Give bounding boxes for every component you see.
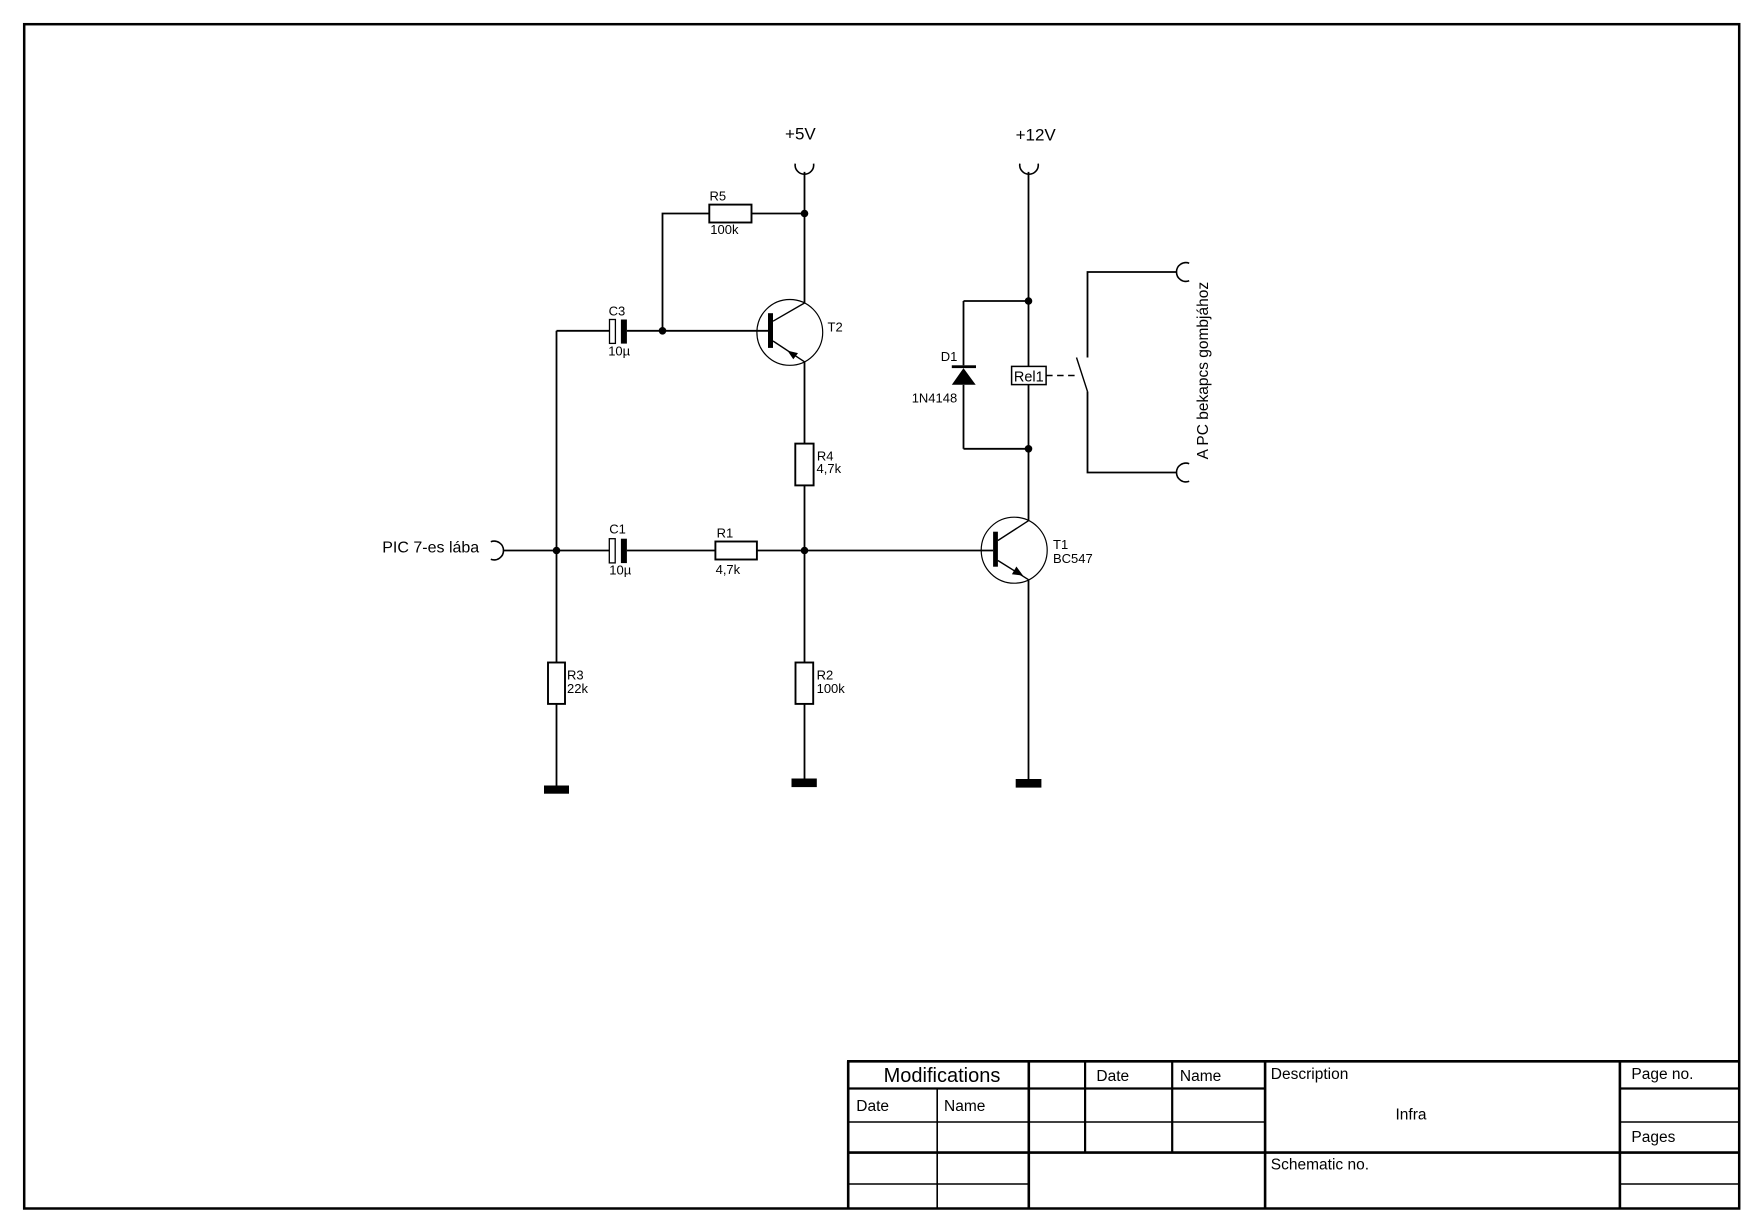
svg-text:+5V: +5V	[785, 124, 816, 143]
junction at relay bottom node	[1025, 445, 1033, 453]
wire: +12V down to relay top node	[1028, 172, 1030, 301]
svg-text:10µ: 10µ	[608, 343, 630, 358]
svg-text:Rel1: Rel1	[1014, 369, 1044, 385]
svg-text:100k: 100k	[817, 681, 846, 696]
svg-text:PIC 7-es lába: PIC 7-es lába	[382, 540, 479, 557]
junction at PIC input node	[553, 547, 561, 555]
svg-text:Name: Name	[944, 1098, 985, 1115]
svg-text:A PC bekapcs gombjához: A PC bekapcs gombjához	[1195, 282, 1212, 460]
resistor R2 100k	[796, 663, 846, 704]
junction at R5 right on +5V rail	[801, 210, 809, 218]
relay actuator dashed link	[1046, 375, 1078, 377]
svg-text:+12V: +12V	[1016, 125, 1057, 144]
ground below T1	[1016, 779, 1042, 788]
wire: C1 right plate to R1	[627, 550, 716, 552]
relay contact switch blade	[1077, 358, 1088, 392]
svg-text:Schematic no.: Schematic no.	[1271, 1156, 1369, 1173]
svg-text:4,7k: 4,7k	[817, 461, 842, 476]
wire: PIC connector to input node	[503, 550, 556, 552]
terminal bottom to PC button	[1176, 463, 1189, 482]
wire: node to T1 collector	[1028, 449, 1030, 521]
resistor R5 100k	[709, 189, 751, 237]
title block	[847, 1061, 1739, 1209]
wire: node to Rel1 coil top	[1028, 301, 1030, 366]
wire: node down to R2	[804, 551, 806, 663]
terminal top to PC button	[1176, 263, 1189, 282]
wire: +5V rail down to T2 collector	[804, 172, 806, 303]
wire: diode anode lead	[963, 385, 965, 449]
svg-text:Page no.: Page no.	[1631, 1066, 1693, 1083]
junction at relay top node	[1025, 297, 1033, 305]
svg-text:T2: T2	[828, 319, 843, 334]
wire: T2 emitter down to R4	[804, 362, 806, 444]
wire: diode top link to relay node	[964, 300, 1029, 302]
diode D1 1N4148	[912, 349, 976, 406]
wire: T1 emitter down to ground	[1028, 580, 1030, 779]
wire: R3 bottom to ground	[556, 704, 558, 786]
connector PIC 7-es lába	[382, 540, 503, 560]
wire: left vertical from C3 node down to R3	[556, 331, 558, 663]
wire: contact bottom stub and lead to terminal	[1088, 392, 1177, 473]
wire: R5 right lead	[752, 213, 805, 215]
wire: R4 bottom to node	[804, 485, 806, 550]
resistor R3 22k	[548, 663, 588, 704]
svg-text:Date: Date	[1096, 1068, 1129, 1085]
ground below R2	[792, 779, 817, 788]
wire: input node to C1 left plate	[557, 550, 610, 552]
svg-text:BC547: BC547	[1053, 551, 1093, 566]
wire: R1 right lead to T1 base	[757, 550, 993, 552]
svg-text:R1: R1	[717, 526, 734, 541]
svg-text:C3: C3	[609, 303, 626, 318]
wire: diode cathode lead	[963, 301, 965, 365]
svg-text:Modifications: Modifications	[884, 1065, 1001, 1087]
svg-text:C1: C1	[609, 521, 626, 536]
wire: diode bottom link to relay node	[964, 448, 1029, 450]
svg-text:Date: Date	[856, 1098, 889, 1115]
wire: left node to C3 left plate	[557, 330, 610, 332]
transistor T2	[757, 300, 843, 366]
wire: R2 bottom to ground	[804, 704, 806, 779]
svg-text:10µ: 10µ	[609, 563, 631, 578]
power +5V	[785, 124, 816, 174]
junction at T2 base node	[659, 327, 667, 335]
junction at R4/R1/R2 node	[801, 547, 809, 555]
svg-text:22k: 22k	[567, 681, 588, 696]
wire: Rel1 coil bottom to node	[1028, 385, 1030, 449]
resistor R1 4,7k	[715, 526, 757, 577]
ground below R3	[544, 786, 569, 794]
relay coil Rel1	[1012, 366, 1047, 385]
wire: C3 right plate to T2 base	[627, 330, 768, 332]
svg-text:D1: D1	[941, 349, 958, 364]
svg-text:100k: 100k	[710, 222, 739, 237]
capacitor C3 10µ	[608, 303, 630, 358]
svg-text:Infra: Infra	[1395, 1107, 1426, 1124]
svg-text:Description: Description	[1271, 1066, 1349, 1083]
svg-text:Name: Name	[1180, 1068, 1221, 1085]
svg-text:R5: R5	[710, 189, 727, 204]
resistor R4 4,7k	[795, 444, 841, 486]
transistor T1 BC547	[981, 517, 1093, 583]
wire: R5 left lead and feedback down to base node	[663, 214, 710, 331]
power +12V	[1016, 125, 1057, 174]
wire: contact top stub and lead to terminal	[1088, 272, 1177, 358]
svg-text:Pages: Pages	[1631, 1129, 1675, 1146]
svg-text:1N4148: 1N4148	[912, 391, 958, 406]
svg-text:4,7k: 4,7k	[716, 562, 741, 577]
capacitor C1 10µ	[609, 521, 631, 577]
